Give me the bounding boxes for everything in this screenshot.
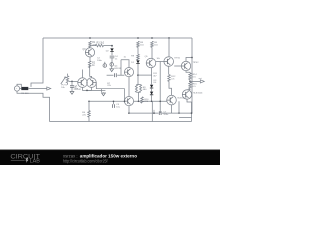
svg-text:100u: 100u: [163, 114, 169, 116]
svg-text:http://circuitlab.com/c8or25f: http://circuitlab.com/c8or25f: [63, 159, 108, 164]
svg-text:BD139: BD139: [114, 68, 121, 70]
svg-text:R3 2k2: R3 2k2: [97, 41, 105, 44]
svg-text:RS 600: RS 600: [21, 93, 29, 95]
svg-text:TIP42: TIP42: [193, 62, 200, 64]
svg-text:TIP41: TIP41: [174, 57, 181, 59]
svg-text:MJ15004: MJ15004: [193, 92, 203, 94]
svg-text:LAB: LAB: [30, 159, 41, 165]
svg-text:out: out: [199, 77, 202, 80]
svg-text:100n: 100n: [97, 60, 103, 62]
